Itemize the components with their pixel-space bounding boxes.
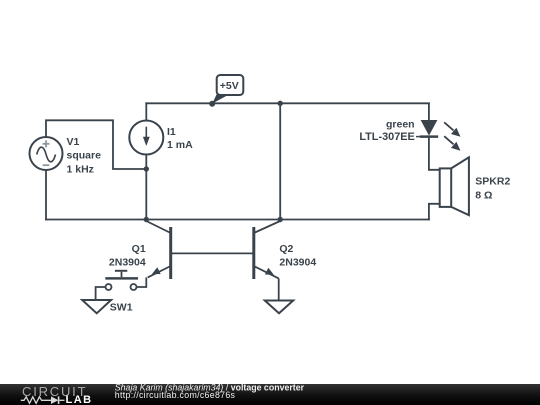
svg-text:2N3904: 2N3904 bbox=[279, 256, 316, 268]
junction V1/I1 bbox=[144, 166, 149, 171]
svg-text:http://circuitlab.com/c6e876s: http://circuitlab.com/c6e876s bbox=[115, 390, 236, 400]
junction bottom rail I1/Q1 bbox=[144, 217, 149, 222]
svg-text:SPKR2: SPKR2 bbox=[475, 176, 510, 188]
wire LED anode drop bbox=[428, 103, 430, 120]
junction bottom rail Q2 bbox=[278, 217, 283, 222]
LED green LTL-307EE bbox=[416, 120, 461, 151]
speaker SPKR2 bbox=[440, 157, 469, 215]
junction top rail x280 bbox=[278, 101, 283, 106]
+5V flag bbox=[212, 75, 243, 104]
ground under SW1 bbox=[82, 300, 111, 313]
svg-text:I1: I1 bbox=[167, 126, 176, 138]
wire I1 top to +5V rail bbox=[145, 103, 147, 120]
wire I1 bottom bbox=[145, 155, 147, 220]
footer bar bbox=[0, 384, 540, 405]
ground under Q2 bbox=[265, 301, 293, 314]
svg-text:green: green bbox=[386, 119, 415, 131]
switch SW1 bbox=[96, 271, 138, 300]
svg-text:Q2: Q2 bbox=[279, 243, 293, 255]
wire V1 bottom bbox=[45, 171, 47, 220]
logo resistor-diode symbol bbox=[21, 396, 65, 404]
svg-text:Q1: Q1 bbox=[132, 243, 146, 255]
svg-text:1 mA: 1 mA bbox=[167, 139, 193, 151]
wire speaker bottom to rail bbox=[429, 204, 440, 220]
current source I1 bbox=[129, 121, 163, 155]
wire top rail bbox=[146, 102, 429, 104]
svg-text:SW1: SW1 bbox=[110, 301, 133, 313]
svg-text:V1: V1 bbox=[67, 136, 80, 148]
wire LED cathode to speaker top bbox=[429, 137, 440, 170]
transistor Q2 bbox=[254, 221, 280, 300]
svg-text:1 kHz: 1 kHz bbox=[67, 163, 94, 175]
svg-text:2N3904: 2N3904 bbox=[109, 256, 146, 268]
wire V1 top to I1 bottom node bbox=[46, 120, 146, 169]
svg-text:LTL-307EE: LTL-307EE bbox=[359, 131, 414, 143]
svg-text:8 Ω: 8 Ω bbox=[475, 190, 492, 202]
emission arrows bbox=[444, 122, 453, 144]
svg-text:+5V: +5V bbox=[220, 80, 239, 92]
transistor Q1 bbox=[137, 221, 253, 287]
node +5V dot bbox=[209, 101, 215, 107]
svg-text:LAB: LAB bbox=[66, 394, 93, 405]
svg-text:square: square bbox=[67, 150, 102, 162]
wire +5V rail to collector rail bbox=[279, 103, 281, 219]
wire bottom rail bbox=[46, 219, 429, 221]
voltage source V1 bbox=[30, 137, 63, 170]
